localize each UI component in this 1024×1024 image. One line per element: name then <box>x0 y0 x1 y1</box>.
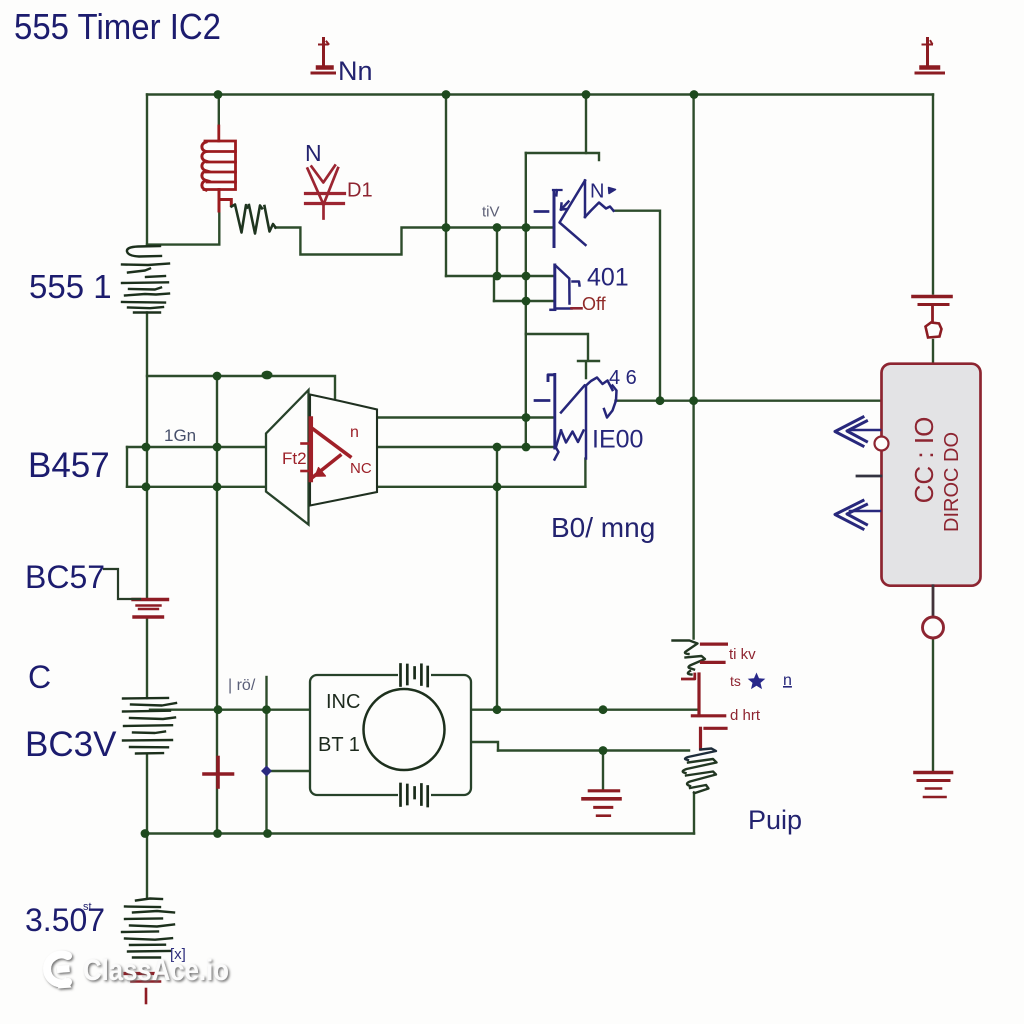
svg-text:Puip: Puip <box>748 805 802 835</box>
inductor L1 red coil <box>202 126 236 211</box>
wire zigzag output to node B <box>276 228 554 255</box>
node y750.5 x603 <box>599 746 608 755</box>
svg-text:ti kv: ti kv <box>729 646 756 663</box>
node rail-x586 <box>582 90 591 99</box>
svg-text:3.507: 3.507 <box>25 902 105 938</box>
svg-text:BC3V: BC3V <box>25 725 117 764</box>
wire IC top lead <box>932 340 934 364</box>
resistor R3 sketchy top right <box>673 641 706 675</box>
transistor Q3 <box>548 375 617 460</box>
wire row y417.5 <box>377 416 553 418</box>
svg-text:INC: INC <box>326 691 360 713</box>
motor M1 top edge gap <box>398 671 431 679</box>
wire Q1 base dash <box>535 210 548 213</box>
svg-text:d hrt: d hrt <box>730 707 761 724</box>
node y487 x497 <box>493 482 502 491</box>
svg-text:1Gn: 1Gn <box>164 426 196 445</box>
IC U1 relay body <box>882 364 981 586</box>
svg-text:IE00: IE00 <box>592 426 643 454</box>
wire left vertical mid segment <box>146 313 148 600</box>
node y487 x217 <box>213 482 222 491</box>
node rail-x446 <box>442 90 451 99</box>
ground GND2 top right <box>916 39 944 74</box>
WATERMARK <box>47 954 229 989</box>
switch S1 (401) <box>551 265 580 310</box>
node rail-bottom x145 <box>141 829 150 838</box>
node y447 x217 <box>213 443 222 452</box>
svg-text:555 1: 555 1 <box>29 268 112 305</box>
svg-text:st: st <box>83 901 92 913</box>
wire left vertical battery link <box>146 617 148 698</box>
wire jog x494 <box>493 277 495 301</box>
node y487 x146 <box>142 482 151 491</box>
wire vertical x497 lower <box>496 447 498 710</box>
wire long vertical x693.6 <box>692 95 694 639</box>
wire left jog x127 <box>126 447 128 487</box>
wire vertical at x446 <box>445 95 447 277</box>
svg-text:n: n <box>783 672 792 689</box>
motor M1 rotor circle <box>364 689 445 770</box>
svg-text:ts: ts <box>730 673 741 689</box>
pin stub U1 left <box>857 475 881 478</box>
capacitor C2 red plus <box>204 758 233 788</box>
capacitor C4 motor bottom plates <box>401 784 428 806</box>
svg-text:N: N <box>305 140 322 166</box>
wire row y487 <box>127 486 585 488</box>
svg-text:D1: D1 <box>347 180 373 202</box>
svg-text:4 6: 4 6 <box>609 367 637 389</box>
diode D1 <box>306 166 345 219</box>
svg-text:n: n <box>350 424 359 441</box>
inductor L2 sketchy zigzag <box>232 205 276 234</box>
wire vertical x266.5 stub <box>265 677 267 710</box>
wire motor jog y742-750.5 <box>471 742 498 751</box>
capacitor C3 motor top plates <box>401 665 428 687</box>
wire L1 bottom hook <box>219 190 231 212</box>
node y447 x526 <box>522 443 531 452</box>
svg-text:Nn: Nn <box>338 56 373 86</box>
wire row y301 to switch <box>494 300 553 302</box>
wire vertical x217 <box>216 376 218 834</box>
transistor Q1 <box>553 181 616 247</box>
node y227 x526 <box>522 223 531 232</box>
node y447 x146 <box>142 443 151 452</box>
IC U1 notch <box>875 437 889 451</box>
wire vertical at x586 from rail <box>585 95 587 154</box>
battery BT2 red bars <box>133 600 168 618</box>
svg-text:CC : IO: CC : IO <box>909 417 939 504</box>
node y709.7 x603 <box>599 705 608 714</box>
connector J1 hexagon <box>926 323 942 338</box>
wire row y447 <box>127 446 553 448</box>
wire BC57 label pointer <box>104 569 140 599</box>
svg-text:401: 401 <box>587 264 629 292</box>
svg-text:BT 1: BT 1 <box>318 734 360 756</box>
node rail-x694 <box>690 90 699 99</box>
resistor R4 red lead <box>701 728 727 749</box>
svg-text:Off: Off <box>582 294 607 314</box>
wire bottom rail y833.5 <box>145 832 694 834</box>
node rail-coil <box>214 90 223 99</box>
svg-text:tiV: tiV <box>482 204 500 221</box>
node y376 x217 <box>213 372 222 381</box>
battery BT3 sketchy stack <box>123 698 176 754</box>
node y276 x497 <box>493 272 502 281</box>
motor M1 bottom edge gap <box>398 791 431 799</box>
wire base row y276 <box>446 275 553 277</box>
wire from node A to resistor ladder <box>147 210 219 245</box>
wire row y153 with stub <box>526 153 599 160</box>
resistor R5 sketchy (3.507) <box>122 899 174 958</box>
node y709.7 x218 <box>214 705 223 714</box>
node rail-bottom x217 <box>213 829 222 838</box>
wire S1 red bottom stub <box>572 307 582 310</box>
wire IC bottom to ground <box>932 639 934 772</box>
wire row y376 <box>147 376 335 400</box>
wire vertical x266.5 lower <box>265 710 267 834</box>
transistor Q2 trapezoid body <box>310 395 377 506</box>
wire vertical at x525.8 <box>525 153 527 447</box>
wire coil top lead <box>218 95 220 127</box>
svg-text:Ft2: Ft2 <box>282 449 307 468</box>
svg-text:DIROC DO: DIROC DO <box>941 432 963 532</box>
node y227 x497 <box>493 223 502 232</box>
resistor R1 sketchy (5551) <box>122 246 169 313</box>
wire U1 bottom lead <box>932 586 935 617</box>
wire Q3 collector L-link <box>526 334 599 378</box>
wire motor right row y709.7 <box>471 709 697 711</box>
wire battery row y709.7 left <box>150 709 310 711</box>
node y447 x497 <box>493 443 502 452</box>
wire top supply rail <box>147 93 933 95</box>
ground GND1 top middle <box>312 39 335 74</box>
ground GND3 motor <box>583 791 620 816</box>
wire right corner drop x933 <box>932 95 934 294</box>
node rail-bottom x267 <box>263 829 272 838</box>
wire resistor bottom link x694 <box>693 793 695 834</box>
logo ClassAce <box>47 954 68 983</box>
wire Q1 collector to x660 <box>614 211 660 401</box>
star <box>748 673 766 690</box>
node y227 x446 <box>442 223 451 232</box>
wire Q3 emitter drop x585.4 <box>584 459 586 487</box>
transistor Q2 red symbol <box>302 419 351 481</box>
ground GND4 bottom right <box>915 773 952 798</box>
wire Q3 base dash <box>535 399 549 402</box>
arrow A1 into IC <box>835 417 880 446</box>
wire Q3 output row y400.7 to IC <box>616 400 882 402</box>
svg-text:C: C <box>28 659 51 695</box>
pin flag Q1 <box>609 188 616 194</box>
transistor Q2 pentagon body <box>266 390 309 525</box>
wire row y750.5 <box>498 749 689 751</box>
wire diamond stub y771 <box>267 770 311 772</box>
resistor R4 sketchy bottom right <box>683 749 717 794</box>
node y400.7 x660 <box>656 396 665 405</box>
svg-text:B0/ mng: B0/ mng <box>551 512 655 543</box>
wire ground drop x603 <box>602 751 604 790</box>
wire left vertical top segment <box>146 95 148 247</box>
svg-text:BC57: BC57 <box>25 559 105 595</box>
svg-text:| rö/: | rö/ <box>228 677 256 694</box>
motor M1 box <box>310 675 471 795</box>
svg-text:ClassAce.io: ClassAce.io <box>83 954 229 987</box>
node y417 x526 <box>522 413 531 422</box>
svg-text:555 Timer IC2: 555 Timer IC2 <box>14 6 221 47</box>
wire left vertical to bottom rail <box>146 754 148 898</box>
battery BT4 red bottom <box>125 974 164 1004</box>
node y301 x526 <box>522 297 531 306</box>
resistor R3 red leads <box>682 644 726 716</box>
svg-text:NC: NC <box>350 460 372 477</box>
node diamond y771 x266.5 <box>261 766 272 777</box>
svg-text:N: N <box>590 181 604 203</box>
node y400.7 x694 <box>689 396 698 405</box>
wire jog x497 <box>496 228 498 277</box>
node y276 x526 <box>522 272 531 281</box>
connector J2 circle <box>923 617 944 638</box>
node y376 x267 <box>262 371 273 380</box>
node y709.7 x497 <box>493 705 502 714</box>
capacitor C1 right red plates <box>913 297 951 323</box>
node y709.7 x266.5 <box>262 705 271 714</box>
arrow A2 into IC <box>835 501 880 530</box>
svg-text:B457: B457 <box>28 446 110 485</box>
